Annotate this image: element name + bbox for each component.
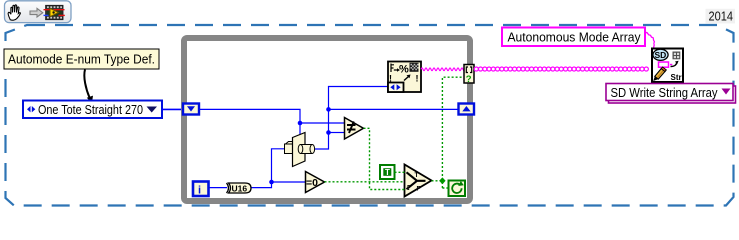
boolean wire select to condition and tunnel	[432, 77, 465, 188]
label arrow	[84, 70, 89, 99]
wire i to U16	[209, 187, 227, 189]
wire enum array inside loop	[199, 109, 300, 136]
svg-text:Automode E-num Type Def.: Automode E-num Type Def.	[8, 52, 155, 67]
node junction	[326, 107, 331, 112]
svg-text:One Tote Straight 270: One Tote Straight 270	[38, 102, 143, 117]
SD Write String Array subVI icon	[652, 49, 683, 83]
enum constant One Tote Straight 270	[23, 101, 162, 119]
svg-text:T: T	[415, 172, 419, 179]
toolbar palette	[5, 1, 72, 23]
wire branch to right tunnel	[329, 108, 459, 110]
svg-text:T: T	[385, 168, 390, 177]
svg-text:%: %	[399, 64, 409, 76]
label Automode E-num Type Def.	[4, 49, 159, 69]
polymorphic selector SD Write String Array	[606, 84, 736, 104]
svg-text:2014: 2014	[709, 9, 734, 24]
svg-text:SD Write String Array: SD Write String Array	[611, 85, 718, 100]
svg-text:=0: =0	[306, 177, 318, 189]
svg-text:F: F	[417, 186, 421, 193]
svg-text:?: ?	[407, 183, 412, 192]
svg-text:Str: Str	[671, 73, 682, 82]
node junction	[298, 121, 303, 126]
true constant T	[380, 165, 395, 179]
iteration terminal i	[193, 182, 209, 197]
string wire zigzag	[421, 68, 465, 71]
equal to zero node	[306, 172, 325, 193]
cursor arrow icon	[30, 8, 43, 17]
svg-text:Autonomous Mode Array: Autonomous Mode Array	[508, 30, 641, 45]
not equal node	[345, 118, 364, 140]
boolean wire equal-zero to select	[325, 181, 405, 183]
conditional indexing tunnel	[464, 65, 474, 85]
while loop border	[184, 38, 470, 201]
label Autonomous Mode Array	[502, 28, 645, 47]
wire branch up to index input	[272, 149, 285, 182]
svg-text:?: ?	[466, 74, 472, 85]
wire branch to not-equal upper input	[300, 122, 345, 124]
wire element from index array	[315, 87, 388, 150]
loop condition terminal	[449, 181, 466, 197]
boolean junction diamond	[439, 177, 445, 184]
format into string node	[388, 62, 421, 93]
svg-text:SD: SD	[655, 50, 667, 60]
selection dashed rectangle	[6, 25, 734, 206]
svg-text:U16: U16	[232, 183, 248, 193]
select node	[405, 165, 432, 197]
index array node	[285, 133, 315, 167]
node junction	[326, 130, 331, 135]
U16 conversion node	[227, 183, 252, 193]
svg-text:!: !	[416, 74, 419, 84]
wire U16 to equal-zero	[251, 182, 306, 188]
wire enum to loop tunnel	[162, 108, 184, 110]
string array bead wire	[474, 67, 648, 71]
node junction	[269, 180, 274, 185]
right tunnel	[459, 104, 475, 115]
label attach squiggle	[646, 32, 655, 48]
boolean wire T to select	[395, 171, 405, 173]
svg-text:i: i	[198, 185, 201, 197]
boolean wire not-equal to select	[364, 128, 405, 189]
hand tool icon	[8, 5, 20, 20]
2014 version tag	[706, 9, 736, 24]
wire branch to not-equal lower input	[329, 132, 345, 134]
left tunnel	[183, 104, 199, 115]
cleanup diagram icon	[44, 5, 65, 20]
